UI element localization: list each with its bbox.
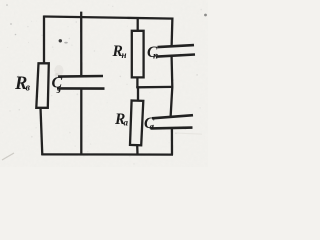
wire Cэ branch upper (tick above rail) [80, 12, 82, 77]
wire left branch lower [41, 108, 43, 156]
wire right branch middle [171, 57, 173, 118]
capacitor Cа top plate [152, 115, 193, 118]
wire Cэ branch lower [80, 89, 82, 155]
capacitor Cэ bottom plate [57, 87, 105, 90]
resistor Rв [36, 63, 49, 108]
wire right branch lower [171, 128, 173, 155]
capacitor Cн bottom plate [157, 55, 195, 57]
wire top rail [44, 17, 174, 19]
svg-text:н: н [122, 50, 127, 60]
faint specks top-left [6, 4, 8, 6]
wire Rа bottom [136, 145, 139, 155]
wire middle horizontal [136, 86, 172, 89]
capacitor Cа bottom plate [151, 126, 193, 129]
capacitor Cэ top plate [58, 75, 103, 78]
wire Rн bottom to mid node [136, 77, 138, 88]
wire mid node down to Rа [137, 88, 139, 102]
speck top-right [204, 14, 207, 17]
wire right branch upper [170, 18, 173, 48]
svg-text:а: а [124, 118, 129, 128]
svg-text:в: в [26, 83, 31, 94]
wire Rн branch top [137, 18, 139, 31]
wire left branch upper [43, 16, 45, 64]
wire bottom rail [41, 153, 173, 156]
faint pencil mark bottom-left [2, 153, 14, 160]
svg-text:н: н [153, 51, 158, 61]
resistor Rа [130, 101, 143, 146]
ink dot noise [59, 39, 62, 42]
svg-text:э: э [56, 85, 61, 96]
capacitor Cн top plate [158, 45, 195, 47]
svg-text:а: а [150, 122, 155, 132]
resistor Rн [132, 31, 144, 78]
faint smudge [55, 65, 64, 76]
paper background [0, 0, 208, 167]
